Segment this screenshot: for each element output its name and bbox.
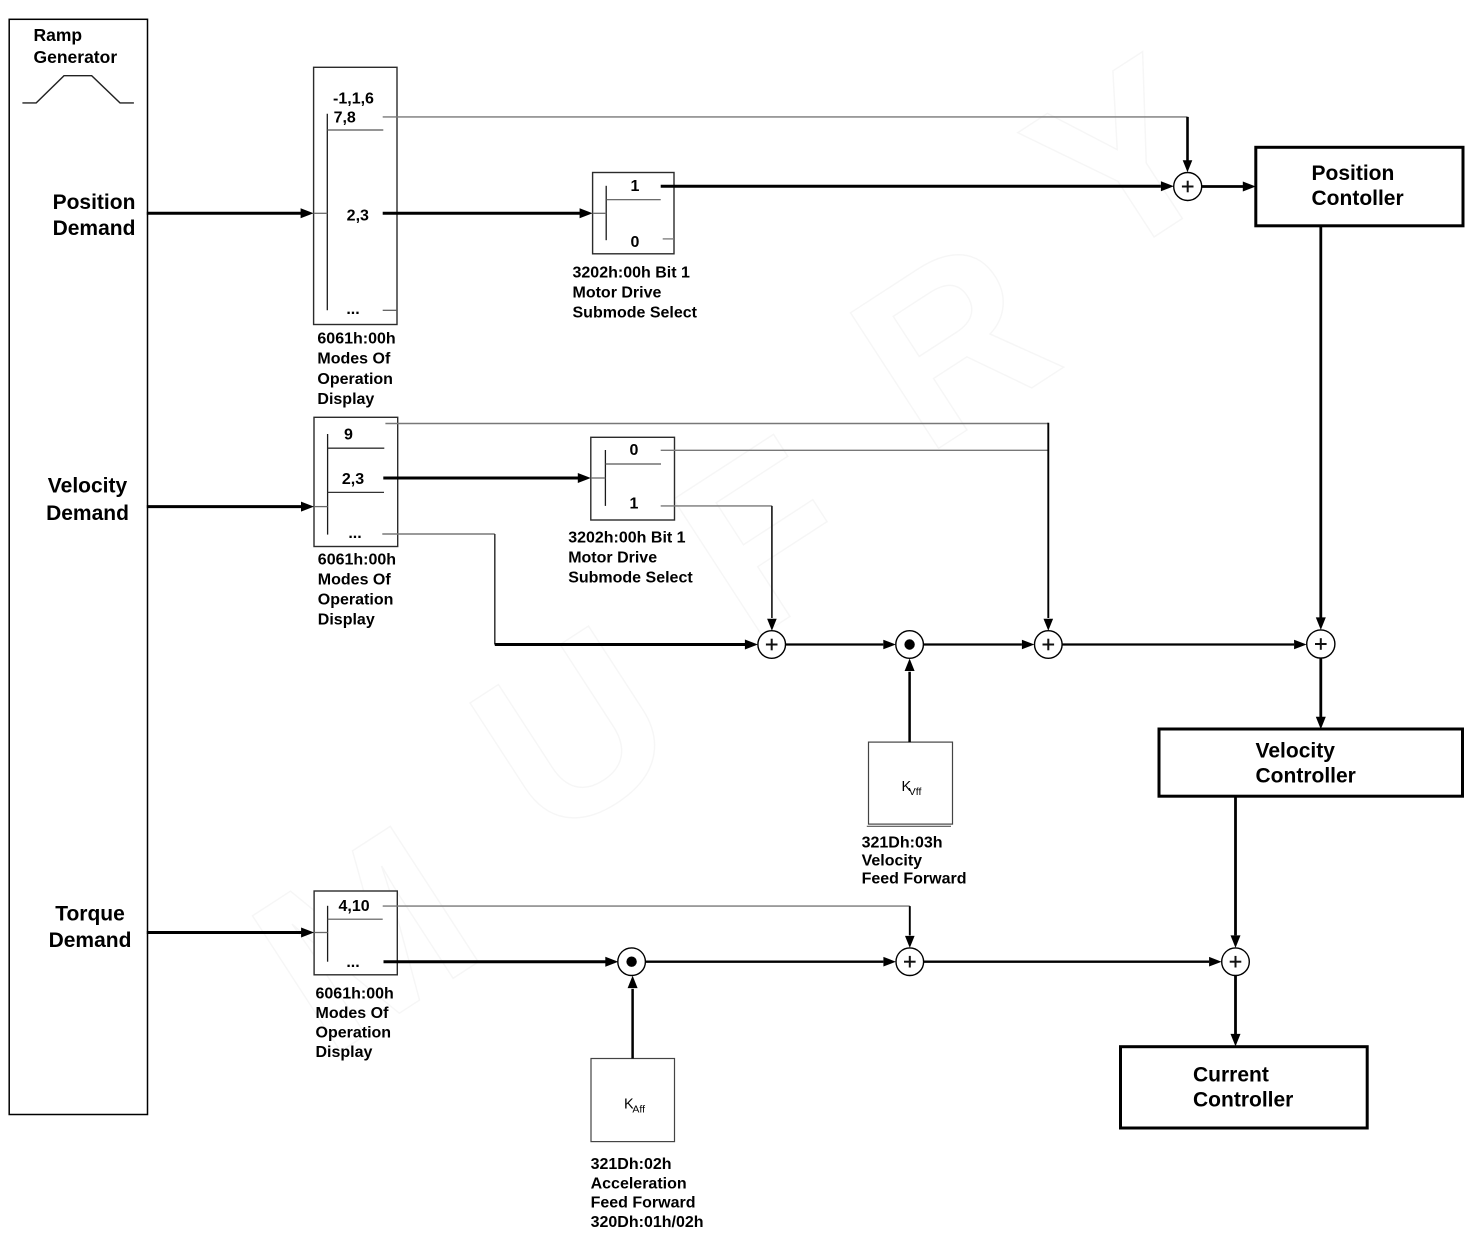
svg-text:6061h:00h: 6061h:00h xyxy=(317,331,395,348)
svg-text:Motor Drive: Motor Drive xyxy=(573,284,662,301)
svg-text:Motor Drive: Motor Drive xyxy=(568,550,657,567)
wire 2,3 output to submode switch xyxy=(383,208,593,218)
svg-text:Display: Display xyxy=(316,1044,373,1061)
svg-text:Velocity: Velocity xyxy=(1256,740,1336,763)
svg-text:...: ... xyxy=(346,954,359,971)
block Velocity Controller xyxy=(1159,729,1463,796)
wire A to multiplier M1 xyxy=(786,640,896,650)
svg-text:Torque: Torque xyxy=(55,902,125,925)
svg-text:Current: Current xyxy=(1193,1064,1269,1087)
svg-text:-1,1,6: -1,1,6 xyxy=(333,91,374,108)
wire switch 1 output to position sum xyxy=(661,181,1174,191)
summing junction D torque xyxy=(896,948,924,976)
svg-text:Demand: Demand xyxy=(46,502,129,525)
block KAff gain xyxy=(591,1059,675,1142)
svg-text:0: 0 xyxy=(631,234,640,251)
svg-text:Contoller: Contoller xyxy=(1312,187,1404,210)
wire Velocity Controller down to sum F xyxy=(1231,796,1241,948)
svg-text:Operation: Operation xyxy=(317,371,393,388)
svg-text:Demand: Demand xyxy=(53,217,136,240)
svg-text:Modes Of: Modes Of xyxy=(317,351,391,368)
label 6061h:00h Modes Of Operation Display (position) xyxy=(317,331,395,408)
wire ... output to multiplier E xyxy=(384,957,619,967)
svg-text:4,10: 4,10 xyxy=(339,898,370,915)
svg-text:Submode Select: Submode Select xyxy=(573,304,698,321)
wire 7,8 output to position sum xyxy=(383,117,1193,172)
svg-text:6061h:00h: 6061h:00h xyxy=(316,985,394,1002)
wire ... output to velocity sum A xyxy=(382,534,758,650)
svg-text:Velocity: Velocity xyxy=(862,853,923,870)
block submode switch 3202h velocity xyxy=(591,437,675,520)
svg-text:Ramp: Ramp xyxy=(34,25,83,45)
multiplier M1 velocity feed forward xyxy=(896,631,924,659)
summing junction C velocity xyxy=(1307,630,1335,658)
label 3202h:00h Bit 1 Motor Drive Submode Select (position) xyxy=(573,264,698,321)
svg-text:321Dh:03h: 321Dh:03h xyxy=(862,835,943,852)
svg-text:...: ... xyxy=(346,301,359,318)
wire Position Demand arrow xyxy=(147,208,314,218)
summing junction B velocity xyxy=(1035,631,1063,659)
block submode switch 3202h position xyxy=(593,173,674,254)
multiplier E acceleration feed forward xyxy=(618,948,646,976)
svg-text:9: 9 xyxy=(344,427,353,444)
block Current Controller xyxy=(1121,1047,1368,1128)
wire 4,10 output to sum D xyxy=(383,906,915,948)
block mode selector 6061h torque xyxy=(314,891,397,975)
svg-text:320Dh:01h/02h: 320Dh:01h/02h xyxy=(591,1214,704,1231)
summing junction S1 position xyxy=(1174,173,1202,201)
wire KVff up to M1 xyxy=(905,659,915,743)
svg-text:Velocity: Velocity xyxy=(48,475,128,498)
svg-text:3202h:00h Bit 1: 3202h:00h Bit 1 xyxy=(568,530,685,547)
svg-text:Feed Forward: Feed Forward xyxy=(591,1195,696,1212)
wire D to sum F xyxy=(924,957,1222,967)
wire S1 to Position Controller xyxy=(1202,182,1256,192)
svg-text:Operation: Operation xyxy=(318,591,394,608)
summing junction F torque xyxy=(1222,948,1250,976)
svg-text:Feed Forward: Feed Forward xyxy=(862,871,967,888)
svg-text:7,8: 7,8 xyxy=(334,109,356,126)
svg-text:...: ... xyxy=(348,525,361,542)
block mode selector 6061h velocity xyxy=(314,417,398,546)
wire vertical into sum B xyxy=(1044,423,1054,631)
summing junction A velocity xyxy=(758,631,786,659)
wire F down to Current Controller xyxy=(1231,976,1241,1047)
node Torque Demand xyxy=(49,902,132,952)
svg-text:Acceleration: Acceleration xyxy=(591,1175,687,1192)
label 321Dh:03h Velocity Feed Forward xyxy=(862,835,967,888)
wire KAff up to E xyxy=(628,976,638,1059)
svg-text:Demand: Demand xyxy=(49,929,132,952)
label 6061h:00h Modes Of Operation Display (torque) xyxy=(316,985,394,1061)
svg-text:Controller: Controller xyxy=(1193,1089,1293,1112)
svg-text:Display: Display xyxy=(317,391,374,408)
svg-text:3202h:00h Bit 1: 3202h:00h Bit 1 xyxy=(573,264,690,281)
node Position Demand xyxy=(53,191,136,240)
label 6061h:00h Modes Of Operation Display (velocity) xyxy=(318,551,396,628)
svg-text:2,3: 2,3 xyxy=(342,471,364,488)
svg-text:0: 0 xyxy=(630,442,639,459)
block Ramp Generator xyxy=(9,19,147,1114)
wire switch 1 output down to sum A xyxy=(661,506,777,631)
wire B to sum C xyxy=(1062,640,1307,650)
svg-text:Modes Of: Modes Of xyxy=(316,1005,390,1022)
block KVff gain xyxy=(867,742,953,826)
wire E to sum D xyxy=(645,957,896,967)
svg-text:2,3: 2,3 xyxy=(347,207,369,224)
svg-text:Position: Position xyxy=(53,191,136,214)
svg-text:Submode Select: Submode Select xyxy=(568,570,693,587)
svg-text:Generator: Generator xyxy=(34,47,118,67)
label 3202h:00h Bit 1 Motor Drive Submode Select (velocity) xyxy=(568,530,693,587)
svg-text:Position: Position xyxy=(1312,162,1395,185)
wire switch 0 output to vertical at B xyxy=(661,449,1049,451)
wire 2,3 output to velocity submode switch xyxy=(383,473,591,483)
svg-text:6061h:00h: 6061h:00h xyxy=(318,551,396,568)
svg-text:321Dh:02h: 321Dh:02h xyxy=(591,1156,672,1173)
svg-text:Modes Of: Modes Of xyxy=(318,571,392,588)
node Velocity Demand xyxy=(46,475,129,525)
svg-text:Controller: Controller xyxy=(1256,765,1356,788)
wire C down to Velocity Controller xyxy=(1316,658,1326,729)
svg-text:Vff: Vff xyxy=(909,786,922,798)
label 321Dh:02h Acceleration Feed Forward 320Dh:01h/02h xyxy=(591,1156,704,1231)
wire 9 output to velocity sum B xyxy=(385,423,1048,425)
svg-text:Aff: Aff xyxy=(632,1104,645,1116)
block mode selector 6061h position xyxy=(314,67,397,324)
svg-text:Display: Display xyxy=(318,611,375,628)
svg-text:1: 1 xyxy=(630,496,639,513)
block Position Controller xyxy=(1256,147,1463,226)
wire Torque Demand arrow xyxy=(147,928,314,938)
watermark xyxy=(81,6,1392,1101)
svg-text:1: 1 xyxy=(631,178,640,195)
wire Position Controller down to velocity sum C xyxy=(1316,226,1326,630)
wire Velocity Demand arrow xyxy=(147,502,314,512)
svg-text:Operation: Operation xyxy=(316,1025,392,1042)
wire M1 to sum B xyxy=(923,640,1034,650)
